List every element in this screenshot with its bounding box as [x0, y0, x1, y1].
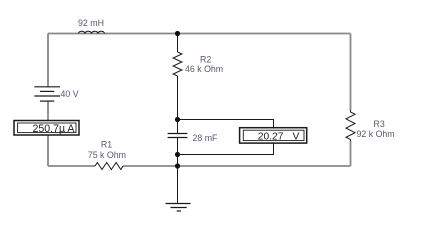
- wire left vertical upper: [47, 34, 49, 87]
- battery V1: [34, 87, 60, 101]
- resistor R3 92 k Ohm: [346, 110, 355, 141]
- wire bottom left segment: [48, 165, 95, 167]
- ground: [166, 204, 191, 212]
- capacitor C1 28 mF: [168, 134, 188, 138]
- svg-text:V: V: [293, 131, 300, 142]
- wire capacitor to bottom wire: [177, 138, 179, 167]
- node dot below capacitor: [175, 152, 180, 157]
- wire right vertical lower: [350, 141, 352, 166]
- svg-text:R2: R2: [200, 55, 211, 65]
- svg-text:20.27: 20.27: [258, 131, 284, 142]
- node dot above capacitor: [175, 117, 180, 122]
- resistor R1 75 k Ohm: [95, 163, 123, 170]
- inductor L1 92 mH: [79, 31, 105, 33]
- voltmeter U2 20.27 V: [240, 128, 307, 143]
- svg-text:250.7µ A: 250.7µ A: [32, 123, 75, 135]
- wire R2 to capacitor: [177, 76, 179, 134]
- svg-text:28 mF: 28 mF: [193, 133, 219, 143]
- svg-text:46 k Ohm: 46 k Ohm: [185, 64, 223, 74]
- wire ground lead: [177, 166, 179, 204]
- svg-text:40 V: 40 V: [61, 89, 79, 99]
- ammeter U1 250.7u A: [14, 121, 79, 136]
- node dot bottom wire: [175, 163, 180, 168]
- svg-text:R1: R1: [101, 140, 112, 150]
- svg-text:92 k Ohm: 92 k Ohm: [357, 129, 395, 139]
- svg-text:R3: R3: [374, 119, 385, 129]
- wire right vertical upper: [350, 34, 352, 111]
- wire bottom right segment: [123, 165, 351, 167]
- resistor R2 46 k Ohm: [173, 52, 182, 76]
- wire voltmeter bottom loop: [178, 143, 274, 155]
- wire voltmeter top loop: [178, 120, 274, 128]
- svg-text:92 mH: 92 mH: [78, 18, 104, 28]
- wire ammeter to bottom wire: [47, 135, 49, 166]
- node dot top: [175, 31, 180, 36]
- wire middle branch top lead: [177, 34, 179, 53]
- wire top horizontal: [48, 33, 351, 35]
- svg-text:75 k Ohm: 75 k Ohm: [88, 150, 126, 160]
- wire battery to ammeter: [47, 101, 49, 120]
